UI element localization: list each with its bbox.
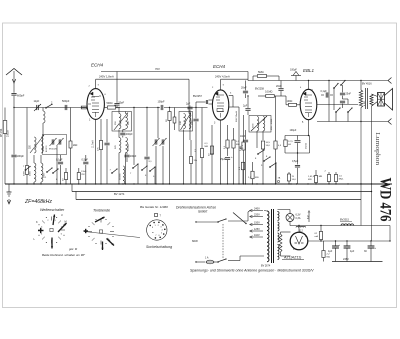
resistor 0,1M psu bbox=[319, 232, 322, 240]
AF transformer box bbox=[249, 116, 271, 133]
wire trimmer box down bbox=[56, 146, 58, 184]
svg-text:500pF: 500pF bbox=[62, 99, 70, 103]
capacitor 4uF a bbox=[332, 245, 339, 247]
resistor 28/40 bbox=[168, 112, 171, 121]
bus line 2 bbox=[72, 191, 372, 193]
svg-text:150V: 150V bbox=[254, 221, 260, 224]
tube2 cathode down bbox=[220, 120, 222, 184]
svg-text:7: 7 bbox=[110, 170, 112, 172]
svg-text:BV2015: BV2015 bbox=[340, 219, 350, 222]
IF transformer T3 box bbox=[179, 112, 193, 132]
coil 2000 T3 bbox=[189, 114, 191, 129]
svg-text:30: 30 bbox=[364, 250, 367, 253]
fuse 1A bbox=[206, 260, 214, 264]
svg-text:2µF: 2µF bbox=[186, 103, 191, 106]
svg-text:175: 175 bbox=[97, 147, 99, 151]
voltage taps bbox=[250, 210, 263, 212]
resistor 20000 Wf2/53 bbox=[4, 108, 6, 121]
wave switch arrows bbox=[53, 215, 55, 226]
rectifier output wire bbox=[308, 240, 390, 242]
svg-text:Sockelschaltung: Sockelschaltung bbox=[146, 245, 172, 249]
svg-text:220V: 220V bbox=[254, 213, 260, 216]
wire output top bbox=[328, 81, 330, 122]
svg-text:2: 2 bbox=[212, 87, 214, 89]
svg-text:1: 1 bbox=[154, 225, 156, 227]
resistor 2M right bbox=[327, 175, 330, 182]
resistor below tube1 a bbox=[99, 141, 102, 150]
wire junction column bbox=[133, 108, 135, 166]
heater winding 112 bbox=[296, 226, 306, 227]
svg-text:0000: 0000 bbox=[30, 170, 32, 176]
capacitor 10nF mid bbox=[243, 139, 248, 141]
svg-text:11pF: 11pF bbox=[34, 99, 40, 103]
switch link dashed bbox=[222, 224, 224, 259]
svg-text:BV2026: BV2026 bbox=[49, 149, 58, 151]
svg-text:kΩ: kΩ bbox=[288, 144, 291, 146]
socket circle bbox=[147, 220, 167, 240]
EBL1 anode wire bbox=[308, 81, 310, 90]
svg-text:0,1: 0,1 bbox=[224, 145, 226, 149]
svg-text:2: 2 bbox=[89, 86, 91, 88]
svg-text:mA: mA bbox=[315, 235, 319, 238]
svg-text:1: 1 bbox=[45, 177, 47, 179]
svg-text:110V: 110V bbox=[254, 234, 260, 237]
oscillator coil bbox=[42, 108, 44, 112]
tube2 extra internals bbox=[217, 94, 224, 96]
svg-text:1: 1 bbox=[55, 220, 57, 222]
resistor 2k bbox=[70, 108, 72, 142]
EBL1 to output transformer bbox=[317, 104, 358, 106]
mains wire top bbox=[196, 221, 217, 223]
svg-text:MΩL: MΩL bbox=[339, 179, 344, 181]
svg-text:2,2: 2,2 bbox=[327, 254, 331, 256]
coil 050 bbox=[119, 114, 121, 129]
tube1 extra internals bbox=[92, 96, 99, 98]
resistor below tube2 b bbox=[232, 140, 235, 148]
svg-text:2W: 2W bbox=[81, 174, 85, 176]
resistor grid small bbox=[81, 106, 87, 109]
switch 7 left bbox=[25, 169, 26, 170]
wire output bottom bbox=[317, 121, 388, 123]
resistor 1,5M b bbox=[314, 176, 317, 183]
svg-text:28: 28 bbox=[166, 119, 168, 122]
svg-text:Beide Drehkond. schalten um 90: Beide Drehkond. schalten um 90° bbox=[42, 253, 86, 257]
svg-text:Lumophon: Lumophon bbox=[374, 132, 381, 166]
switch 6b bbox=[141, 169, 142, 170]
svg-text:60W: 60W bbox=[192, 239, 198, 243]
resistor 500 ohm bbox=[104, 107, 107, 109]
switch 7 bbox=[132, 167, 133, 168]
svg-text:8 V: 8 V bbox=[307, 215, 310, 219]
svg-text:50pF: 50pF bbox=[119, 102, 125, 105]
svg-text:+: + bbox=[231, 155, 233, 159]
capacitor 25uF electrolytic bbox=[225, 157, 230, 159]
svg-text:0500: 0500 bbox=[43, 145, 45, 151]
dial lamp bbox=[278, 209, 291, 211]
svg-text:100pF: 100pF bbox=[158, 100, 166, 103]
trimmer capacitor pair bbox=[51, 139, 53, 144]
svg-text:Wellenschalter: Wellenschalter bbox=[40, 208, 65, 212]
svg-text:060: 060 bbox=[128, 121, 130, 125]
svg-text:2000: 2000 bbox=[191, 119, 193, 125]
resistor 14,5k bbox=[274, 141, 277, 149]
capacitor 100pF coupling bbox=[160, 105, 162, 110]
coil 020 lower bbox=[119, 138, 121, 153]
resistor 70 bbox=[287, 174, 290, 181]
svg-text:020: 020 bbox=[115, 145, 117, 149]
coil 050/060 lower bbox=[126, 138, 128, 153]
AF coil primary bbox=[257, 117, 259, 131]
resistor 1,2M bbox=[251, 171, 254, 179]
svg-text:+: + bbox=[339, 244, 341, 247]
coil 0000 bbox=[34, 163, 36, 182]
svg-text:EBL1: EBL1 bbox=[303, 68, 315, 73]
svg-text:MΩ: MΩ bbox=[240, 148, 244, 150]
svg-text:245V 1,8mA: 245V 1,8mA bbox=[99, 75, 114, 79]
svg-text:7: 7 bbox=[160, 215, 162, 218]
resistor 11k 2W bbox=[77, 173, 80, 180]
svg-text:100pF: 100pF bbox=[17, 154, 25, 158]
svg-text:10Ω: 10Ω bbox=[180, 121, 182, 125]
grid cap symbol EBL1 bbox=[293, 72, 299, 76]
output transformer secondary bbox=[370, 94, 373, 106]
variable capacitor pair mid bbox=[157, 108, 159, 139]
transformer secondary 4 bbox=[278, 245, 280, 260]
svg-text:70V: 70V bbox=[155, 67, 160, 71]
svg-text:6: 6 bbox=[230, 93, 232, 95]
svg-text:4: 4 bbox=[300, 87, 302, 89]
svg-text:70: 70 bbox=[292, 176, 295, 178]
tube EBL1 bbox=[300, 89, 317, 119]
coil 020000 bbox=[123, 166, 125, 184]
svg-text:6: 6 bbox=[105, 94, 107, 96]
svg-text:500Ω: 500Ω bbox=[107, 102, 113, 105]
svg-text:2: 2 bbox=[51, 102, 53, 105]
svg-text:100µF: 100µF bbox=[290, 129, 297, 132]
capacitor 30uF bbox=[368, 245, 375, 247]
svg-text:Spannungs- und Stromwerte ohne: Spannungs- und Stromwerte ohne Antenne g… bbox=[190, 269, 314, 273]
coil 2000 bbox=[41, 163, 43, 182]
svg-text:62: 62 bbox=[315, 233, 318, 235]
svg-text:L: L bbox=[34, 238, 36, 241]
svg-text:20000: 20000 bbox=[7, 130, 10, 137]
svg-text:100Ω: 100Ω bbox=[271, 118, 273, 124]
svg-text:1,5: 1,5 bbox=[339, 176, 343, 178]
svg-text:8: 8 bbox=[255, 158, 257, 160]
svg-text:4µF: 4µF bbox=[350, 250, 355, 253]
svg-text:245V 4,5mA: 245V 4,5mA bbox=[215, 75, 230, 79]
svg-text:ECH4: ECH4 bbox=[91, 62, 104, 67]
capacitor 600pF bbox=[13, 83, 15, 93]
wire anode2 245V bbox=[220, 79, 222, 90]
band switch 2 bbox=[45, 107, 46, 108]
coil 060 bbox=[126, 114, 128, 129]
selector blade bbox=[233, 213, 246, 224]
svg-text:5: 5 bbox=[161, 233, 163, 235]
svg-text:0,1MΩ: 0,1MΩ bbox=[265, 91, 273, 94]
svg-text:1 A: 1 A bbox=[205, 257, 209, 260]
svg-text:5: 5 bbox=[302, 122, 304, 124]
resistor below tube2 a bbox=[226, 140, 229, 148]
svg-text:m: m bbox=[152, 232, 154, 234]
svg-text:Wf 2/53: Wf 2/53 bbox=[0, 128, 3, 137]
svg-text:Bis Geräte Nr. 11060: Bis Geräte Nr. 11060 bbox=[140, 205, 168, 209]
svg-text:14,0: 14,0 bbox=[292, 179, 297, 181]
svg-text:4,5Ω: 4,5Ω bbox=[364, 101, 366, 106]
svg-text:7: 7 bbox=[223, 85, 225, 87]
small cap at 147 bbox=[144, 156, 149, 158]
transformer secondary 1 bbox=[278, 212, 280, 221]
mains wire bottom bbox=[196, 261, 205, 263]
svg-text:200pF: 200pF bbox=[130, 156, 137, 158]
switch out b bbox=[340, 84, 341, 85]
psu ground wire bbox=[332, 261, 383, 263]
switch 0 bbox=[149, 170, 150, 171]
svg-text:B/1074: B/1074 bbox=[46, 145, 48, 152]
transformer secondary 3 bbox=[278, 233, 280, 242]
antenna bbox=[6, 69, 22, 76]
wave switch dial bbox=[61, 229, 65, 231]
svg-text:MΩ: MΩ bbox=[319, 176, 323, 178]
resistor 0,1M mid bbox=[200, 149, 203, 158]
mains switch bottom bbox=[217, 261, 218, 262]
svg-text:2kΩ: 2kΩ bbox=[73, 144, 78, 147]
terminal top right bbox=[388, 78, 392, 81]
socket label square 7 bbox=[155, 214, 158, 217]
svg-text:5MΩ: 5MΩ bbox=[258, 70, 264, 74]
svg-text:2: 2 bbox=[47, 220, 49, 222]
coil 020 bbox=[34, 137, 36, 153]
svg-text:6: 6 bbox=[158, 235, 160, 237]
resistor 5M bbox=[252, 76, 254, 81]
resistor left small bbox=[26, 166, 29, 175]
capacitor T3 bottom bbox=[193, 118, 198, 120]
svg-text:2: 2 bbox=[325, 171, 327, 173]
tube2 grid cap left bbox=[209, 99, 213, 101]
svg-text:BV 4516: BV 4516 bbox=[362, 82, 372, 85]
wires AF transformer bbox=[256, 131, 258, 148]
svg-text:7: 7 bbox=[155, 235, 157, 237]
EBL1 cathode rails bbox=[308, 120, 310, 136]
svg-text:050/060: 050/060 bbox=[128, 143, 130, 151]
svg-text:5000: 5000 bbox=[23, 170, 25, 176]
tube ECH4 second bbox=[212, 90, 228, 120]
svg-text:isoliert: isoliert bbox=[198, 210, 207, 214]
svg-text:2000: 2000 bbox=[253, 123, 255, 128]
rectifier top wire bbox=[290, 225, 390, 227]
tube ECH4 first bbox=[87, 89, 104, 120]
wire vertical 239 bbox=[238, 107, 240, 184]
resistor 1,5M c bbox=[334, 175, 337, 182]
switch out c bbox=[335, 111, 336, 112]
wire main input bbox=[14, 107, 87, 109]
svg-text:U: U bbox=[61, 215, 63, 217]
resistor 0,4M bbox=[242, 142, 245, 150]
svg-text:MΩ: MΩ bbox=[308, 179, 312, 181]
svg-text:8: 8 bbox=[152, 227, 154, 229]
resistor 10,5k bbox=[261, 141, 264, 149]
tone dial bbox=[110, 231, 114, 233]
switch 8 bbox=[257, 153, 258, 154]
resistor 12,5k bbox=[284, 136, 286, 141]
speaker bbox=[378, 93, 385, 107]
switch 9 bbox=[263, 160, 264, 161]
svg-text:11,7mA: 11,7mA bbox=[92, 140, 95, 148]
svg-text:100Ω: 100Ω bbox=[287, 100, 293, 103]
svg-text:11kΩ: 11kΩ bbox=[81, 171, 86, 173]
transformer secondary 2 bbox=[278, 222, 280, 231]
svg-text:BV 1274: BV 1274 bbox=[114, 192, 125, 196]
svg-text:0,1: 0,1 bbox=[205, 143, 209, 145]
svg-text:Tonblende: Tonblende bbox=[93, 209, 110, 213]
choke bbox=[341, 224, 354, 226]
svg-text:25µF: 25µF bbox=[220, 158, 226, 161]
dashed box BV2026 bbox=[43, 135, 67, 155]
IF transformer box bbox=[112, 112, 132, 132]
svg-text:15k: 15k bbox=[194, 160, 198, 162]
coil 10ohm bbox=[184, 114, 186, 129]
svg-text:3: 3 bbox=[291, 236, 293, 238]
HV winding zigzag bbox=[279, 234, 282, 252]
rectifier tube AZ1 bbox=[290, 232, 308, 250]
small res x191 row bbox=[190, 157, 193, 164]
svg-text:10,5: 10,5 bbox=[266, 142, 271, 144]
svg-text:MΩ: MΩ bbox=[327, 257, 331, 259]
ground symbol bbox=[8, 184, 10, 192]
resistor 2,2M bbox=[322, 251, 325, 258]
svg-text:7: 7 bbox=[98, 85, 100, 87]
svg-text:MΩ: MΩ bbox=[205, 146, 209, 148]
ground bus bbox=[5, 183, 392, 185]
svg-text:4: 4 bbox=[41, 234, 43, 236]
tube2 right pin 6 bbox=[229, 95, 233, 97]
svg-text:7: 7 bbox=[23, 166, 25, 168]
svg-text:3: 3 bbox=[160, 227, 162, 229]
svg-text:020: 020 bbox=[30, 144, 32, 149]
svg-text:15mA: 15mA bbox=[305, 143, 308, 149]
svg-text:4: 4 bbox=[162, 230, 164, 232]
capacitor 400pF bbox=[122, 130, 124, 133]
wave switch 1 bbox=[46, 171, 47, 172]
svg-text:245V: 245V bbox=[343, 258, 349, 261]
svg-text:BV 2674: BV 2674 bbox=[261, 265, 271, 268]
svg-text:050: 050 bbox=[115, 121, 117, 125]
svg-text:ECH4: ECH4 bbox=[213, 64, 226, 69]
mains transformer primary bbox=[267, 211, 269, 262]
terminal bottom right bbox=[388, 119, 392, 122]
svg-text:240V: 240V bbox=[254, 207, 260, 210]
coil 060/090 variable bbox=[41, 137, 43, 153]
svg-text:1: 1 bbox=[89, 120, 91, 122]
output transformer primary bbox=[359, 90, 362, 108]
svg-text:6: 6 bbox=[61, 234, 63, 236]
svg-text:NSV 2kmA: NSV 2kmA bbox=[235, 111, 238, 122]
wire top feed bbox=[248, 80, 388, 82]
svg-text:14,0: 14,0 bbox=[266, 145, 271, 147]
svg-text:20nF: 20nF bbox=[241, 87, 247, 90]
capacitor out lower bbox=[340, 100, 345, 102]
svg-text:0,3A: 0,3A bbox=[296, 217, 301, 220]
svg-text:Drehkondensatoren Achse: Drehkondensatoren Achse bbox=[176, 206, 216, 210]
svg-text:K: K bbox=[36, 221, 38, 224]
svg-text:25nF: 25nF bbox=[346, 92, 352, 95]
tubeEBL1 extra internals bbox=[305, 94, 312, 96]
svg-text:3: 3 bbox=[41, 226, 43, 228]
svg-text:7: 7 bbox=[130, 173, 132, 175]
wire T2 top bbox=[118, 108, 120, 114]
bus line 3 bbox=[76, 199, 361, 201]
tone dial link bbox=[84, 232, 140, 238]
switch 7a bbox=[111, 172, 112, 173]
svg-text:BV2257: BV2257 bbox=[193, 95, 203, 98]
capacitor below tube1 bbox=[104, 142, 109, 144]
tone dial arrows bbox=[95, 217, 105, 222]
svg-text:BV2258: BV2258 bbox=[255, 88, 265, 91]
svg-text:8: 8 bbox=[266, 156, 268, 158]
switch out d bbox=[347, 111, 348, 112]
wire antenna to node bbox=[13, 96, 15, 108]
right feed verticals bbox=[360, 122, 362, 226]
svg-text:400pF: 400pF bbox=[126, 133, 133, 136]
svg-text:020000: 020000 bbox=[120, 172, 122, 180]
svg-text:2: 2 bbox=[158, 225, 160, 227]
svg-text:0,5µF: 0,5µF bbox=[82, 158, 89, 161]
wire T3 top bbox=[188, 79, 190, 113]
svg-text:9,1: 9,1 bbox=[149, 161, 153, 163]
svg-text:12,5: 12,5 bbox=[288, 141, 293, 143]
switch 10 bbox=[269, 166, 270, 167]
output transformer core bbox=[365, 88, 367, 109]
resistor 1,5M a bbox=[241, 162, 244, 170]
capacitor 100pF bbox=[13, 108, 15, 155]
resistor 50 4000 bbox=[64, 173, 67, 180]
tube1 cathode wire bbox=[95, 119, 97, 184]
svg-text:100pF: 100pF bbox=[290, 69, 297, 72]
svg-text:MΩ: MΩ bbox=[255, 177, 259, 179]
wire anode 245V bbox=[95, 79, 97, 88]
capacitor 4uF b bbox=[344, 245, 351, 247]
svg-text:3: 3 bbox=[214, 123, 216, 125]
capacitor 200pF bbox=[124, 154, 129, 156]
mains transformer core bbox=[271, 209, 273, 263]
switch out a bbox=[333, 87, 334, 88]
svg-text:+: + bbox=[375, 247, 377, 250]
svg-text:600pF: 600pF bbox=[17, 94, 25, 98]
bus junctions bbox=[13, 183, 14, 184]
svg-text:10nF: 10nF bbox=[240, 136, 246, 138]
svg-text:4,5: 4,5 bbox=[278, 145, 282, 147]
svg-text:125V: 125V bbox=[254, 228, 260, 231]
wire x212 column bbox=[211, 125, 213, 184]
wire screen 70V bbox=[101, 71, 248, 73]
mains switch top bbox=[217, 221, 218, 222]
wave switch 6 bbox=[52, 172, 53, 173]
svg-text:2µF: 2µF bbox=[243, 105, 248, 108]
svg-text:7A: 7A bbox=[278, 177, 281, 180]
svg-text:ZF=468kHz: ZF=468kHz bbox=[24, 199, 52, 205]
svg-text:gez. M: gez. M bbox=[69, 247, 78, 251]
resistor 40 small bbox=[173, 117, 176, 123]
